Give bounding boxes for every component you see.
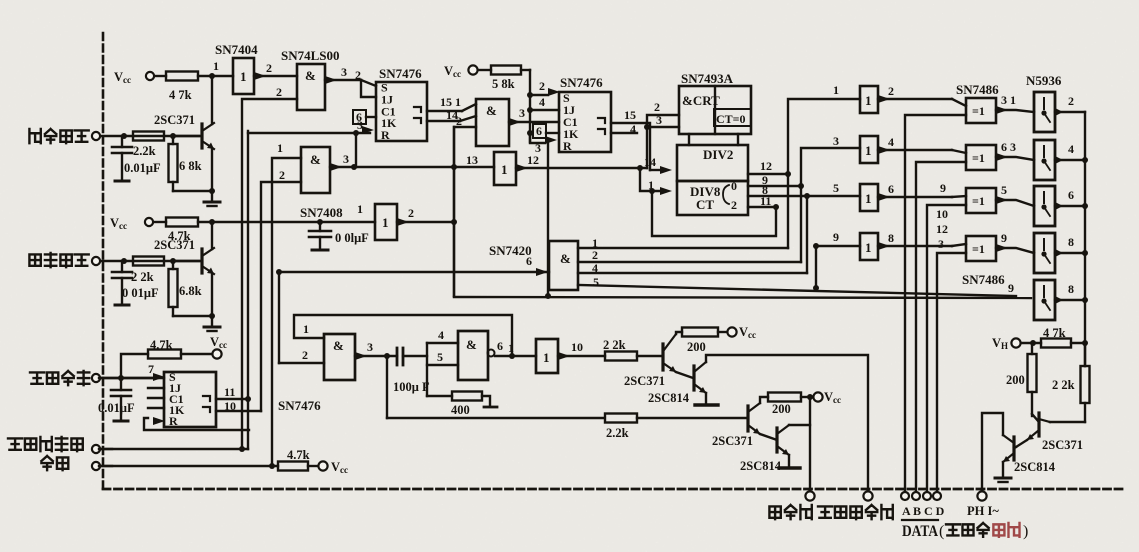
svg-text:1: 1 [357,202,363,216]
nand gate U12 with bubble [458,331,495,380]
svg-text:11: 11 [760,194,771,208]
wire Q10 emitter ground [779,455,800,468]
buffer 1-box row3 [860,184,878,211]
svg-text:2.2k: 2.2k [133,144,156,158]
Vcc terminal 5.8k [444,64,478,79]
terminal while-printing [92,445,112,453]
wire QA riser to row1 [788,99,860,248]
svg-text:SN7476: SN7476 [560,75,603,90]
buffer 13-12 box [494,152,516,185]
svg-text:&: & [466,337,477,352]
rail to second driver stage [387,417,604,419]
wire bundle row4 [578,272,807,274]
wire paper feed vertical [809,397,811,491]
svg-text:0 0lμF: 0 0lμF [335,231,369,245]
Vcc terminal reset row [318,460,348,475]
border dashed bottom [103,488,1122,491]
xor gate =1 row2 [966,145,996,170]
wire QD pin11 [748,194,779,210]
resistor 4.7k right [1021,326,1085,348]
SN7420 input pins [592,236,599,289]
svg-text:5 8k: 5 8k [492,77,515,91]
svg-text:4: 4 [592,261,598,275]
wire FF2 R down to reset bus [545,143,551,299]
wire collector Q1 [211,76,213,124]
counter DIV2 box [677,145,748,181]
wire FF1 Qbar pin14 to and gate [427,108,476,122]
svg-text:10: 10 [571,340,583,354]
wire nand2 in1 from reset line [272,141,301,465]
wire reset bus long to driver5 [454,297,1031,298]
wire QB pin9 [748,173,804,189]
wire driver2 output [1055,142,1085,160]
svg-text:=1: =1 [972,194,985,208]
label DATA with overline [902,520,1028,540]
svg-text:1: 1 [382,215,389,230]
wire xor2 output [996,140,1034,161]
svg-text:4 7k: 4 7k [1043,326,1066,340]
flip-flop U5 SN7476 second [559,75,611,153]
svg-text:3: 3 [343,152,349,166]
svg-text:3: 3 [357,118,363,132]
svg-text:1: 1 [501,162,508,177]
svg-text:9: 9 [1008,281,1014,295]
xor gate =1 row1 [966,98,996,123]
wire character row [121,258,199,264]
svg-text:SN7486: SN7486 [962,272,1005,287]
boxed pin 6 FF1 C1 [353,110,376,124]
svg-text:2SC371: 2SC371 [624,374,665,388]
monostable S box [536,339,558,373]
wire QD drop to feedback [652,191,776,236]
svg-text:4: 4 [539,95,545,109]
nand U2 SN74LS00 [281,48,340,110]
wire FF2 Q pin15 down [611,108,650,170]
driver N5936 unit2 [1034,140,1063,180]
svg-text:DIV2: DIV2 [703,147,733,162]
wire FF2 R stub pin3 [530,133,557,155]
resistor 6.8k ch1 [169,136,213,191]
wire QB riser to row2 [801,148,860,262]
svg-text:1: 1 [833,83,839,97]
svg-text:2: 2 [654,100,660,114]
svg-text:SN74LS00: SN74LS00 [281,48,340,63]
wire while-printing row [99,446,248,452]
svg-text:0.01μF: 0.01μF [124,161,161,175]
svg-text:R: R [381,128,390,142]
svg-text:6: 6 [526,254,532,268]
wire QA pin12 [748,159,791,177]
wire long row5 to driver5 [578,285,1016,296]
Vcc terminal print row [210,335,227,359]
svg-text:2: 2 [276,85,282,99]
wire QC pin8 [748,183,860,199]
svg-text:6: 6 [1068,188,1074,202]
svg-text:6: 6 [536,124,542,138]
wire cap node split [403,328,458,396]
boxed pin 16 FF2 1K [533,124,559,138]
svg-text:4.7k: 4.7k [150,338,173,352]
svg-text:400: 400 [451,403,470,417]
node collector junction [209,73,215,79]
counter CT=0 subbox [714,109,751,126]
bus line D [937,253,966,496]
vertical reset spine [247,131,249,449]
bus right edge vertical [1082,112,1088,366]
feedback loop top wire [294,315,515,359]
svg-text:4: 4 [438,328,444,342]
svg-text:5: 5 [593,275,599,289]
resistor 400 [427,392,497,418]
svg-text:100μ F: 100μ F [393,380,430,394]
wire bundle row3 [578,261,801,263]
transistor Q10 2SC814 [740,425,789,473]
svg-text:3: 3 [519,106,525,120]
xor gate =1 row3 [966,188,996,213]
wire buffer2 output [878,135,966,154]
wire FF3 Q pin11 [216,385,251,402]
wire driver5 output [1055,282,1085,300]
nand U9 SN7420 [489,241,578,290]
wire nand11 out down to rail [386,356,388,418]
wire nand2 in2 from FF3 Qbar [261,168,301,411]
wire QC drop to bundle [806,196,808,273]
long vertical mid spine [453,127,455,296]
svg-text:SN7408: SN7408 [300,205,343,220]
wire FF1 Q pin15 to and gate [427,95,476,111]
FF3 input stubs [148,362,165,425]
wire xor4 output [996,231,1034,253]
svg-text:&: & [486,103,497,118]
wire Q8 emitter ground [695,393,718,405]
svg-text:6 8k: 6 8k [179,159,202,173]
svg-text:6: 6 [497,339,503,353]
wire Q6 collector to PH terminal [982,413,1003,491]
counter CRT box [679,86,751,134]
svg-text:&: & [305,68,316,83]
svg-text:SN7486: SN7486 [956,82,999,97]
wire trigger row [121,133,199,139]
resistor 2.2k stage2 [605,414,748,441]
flip-flop U3 SN7476 first [376,66,427,142]
svg-text:0: 0 [731,179,737,193]
svg-text:&CRT: &CRT [682,93,720,108]
wire buffer tap to DIV8 clock [637,165,672,195]
input label zifu maichong (character pulse) [29,253,88,267]
terminal character pulse [92,257,124,265]
svg-text:2: 2 [731,198,737,212]
wire S box out 10 [558,340,605,360]
wire nand11 in2 [279,348,324,363]
label ribbon paper feed [818,505,893,519]
svg-text:SN7476: SN7476 [379,66,422,81]
svg-text:11: 11 [224,385,235,399]
svg-text:10: 10 [224,399,236,413]
capacitor 0.01uF mid [309,222,369,250]
svg-text:2SC371: 2SC371 [1042,438,1083,452]
wire print command row [99,377,164,379]
input label chufa maichong (trigger pulse) [29,129,88,143]
resistor 6.8k ch2 [169,261,213,316]
svg-text:1: 1 [277,141,283,155]
wire FF2 preset spine [527,70,533,142]
and gate U4 (SN7408 section) [476,99,509,146]
resistor 2.2k vertical [1052,343,1090,422]
svg-text:10: 10 [936,207,948,221]
input label dayin zhiling (print command) [30,371,89,385]
wire R-row to nand3 output row [351,133,357,170]
counter DIV8 box [677,181,748,215]
wire FF2 Qbar stub [611,132,637,134]
wire buffer out 12 [516,153,647,172]
wire collector Q2 [211,222,213,249]
svg-text:2: 2 [456,114,462,128]
wire nand11 out [355,340,397,360]
svg-text:R: R [169,414,178,428]
svg-text:2: 2 [279,168,285,182]
resistor 200 stage1 [676,328,727,355]
xor4 pin labels 10 12 [936,207,948,251]
svg-text:1: 1 [865,143,872,158]
svg-text:2SC814: 2SC814 [648,391,690,405]
svg-text:8: 8 [1068,235,1074,249]
svg-text:3: 3 [367,340,373,354]
wire LS00 out pin3 to FF1 S [325,65,376,86]
wire reset row [99,463,278,469]
svg-text:8: 8 [888,231,894,245]
wire FF1 R input row [248,118,374,136]
svg-text:=1: =1 [972,151,985,165]
svg-text:SN7404: SN7404 [215,42,258,57]
svg-text:&: & [333,338,344,353]
svg-text:13: 13 [466,153,478,167]
wire buffer row up to counter inputs [644,100,679,168]
transistor Q2 2SC371 [154,238,214,274]
nand2 output row to buffer [330,152,494,171]
wire Q10 collector to paper terminal [789,424,810,426]
svg-text:12: 12 [936,222,948,236]
ground Q1 [204,201,220,204]
svg-text:12: 12 [527,153,539,167]
svg-text:R: R [563,139,572,153]
wire buffer1 output [878,84,966,106]
svg-text:200: 200 [687,340,706,354]
svg-text:CT: CT [696,197,714,212]
flip-flop U10 SN7476 third [164,370,321,428]
resistor 4.7k top-left [155,72,233,103]
svg-text:1: 1 [508,341,514,355]
transistor Q1 2SC371 [154,113,214,149]
svg-text:9: 9 [940,181,946,195]
svg-text:2SC371: 2SC371 [154,238,195,252]
svg-text:2SC814: 2SC814 [1014,460,1056,474]
counter brace labels 0 2 [731,179,737,212]
wire buffer4 output [878,231,966,250]
svg-text:PH I~: PH I~ [967,504,999,518]
buffer 1-box row4 [860,233,878,260]
wire LS00 input2 row [242,85,297,449]
svg-text:4: 4 [1068,142,1074,156]
svg-text:9: 9 [833,230,839,244]
svg-text:15: 15 [624,108,636,122]
vertical from 7420 out to nand11 [278,272,280,363]
wire xor1 output [996,93,1034,114]
labels A B C D [902,504,945,518]
svg-text:2: 2 [1068,94,1074,108]
wire SN7420 output 6 [276,254,549,276]
svg-text:DATA: DATA [902,523,938,540]
wire tap to DIV2 clock [644,155,672,174]
svg-text:2SC814: 2SC814 [740,459,782,473]
terminal trigger pulse [92,132,124,140]
svg-text:1: 1 [865,240,872,255]
driver N5936 unit4 [1034,233,1063,273]
buffer 1-box row2 [860,136,878,163]
xor gate =1 row4 [966,236,996,261]
svg-text:3: 3 [341,65,347,79]
transistor Q5 2SC371 right [1016,413,1085,452]
svg-text:2: 2 [266,61,272,75]
terminal reset [92,462,112,470]
svg-text:8: 8 [1068,282,1074,296]
border dashed left [102,33,105,489]
nand gate U6 second [301,147,330,193]
wire and4 third input from below [454,114,476,296]
wire nand12 out to S box [495,339,536,356]
svg-text:0.01μF: 0.01μF [98,401,135,415]
terminal paper feed [805,491,814,500]
wire FF1 1J stub [361,80,376,97]
wire driver5 input [1008,281,1014,295]
input label dayin gongzuoshi (while printing) [8,437,83,451]
svg-text:2: 2 [539,79,545,93]
svg-text:3 1: 3 1 [1001,93,1016,107]
wire and4 out pin3 to FF2 C1 [509,106,559,126]
svg-text:N5936: N5936 [1026,73,1062,88]
wire Q8 collector row to ribbon terminal [706,355,868,491]
resistor 4.7k print row [118,338,212,381]
wire buffer3 output [878,182,966,201]
svg-text:SN7476: SN7476 [278,398,321,413]
resistor 2.2k ch1 [133,132,164,141]
bus line C [927,205,966,496]
bus line B [916,162,966,496]
resistor 4.7k ch2 [154,218,375,244]
Vcc terminal stage2 [813,390,841,405]
svg-text:3: 3 [656,113,662,127]
svg-text:2: 2 [408,206,414,220]
ground Q2 [204,326,220,329]
nand gate U11 bottom [324,334,355,380]
svg-text:5: 5 [1001,183,1007,197]
svg-text:5: 5 [833,181,839,195]
terminal print command [92,374,121,382]
svg-text:2: 2 [888,84,894,98]
svg-text:3: 3 [938,237,944,251]
wire Q6 emitter ground [995,462,1011,482]
svg-text:6.8k: 6.8k [179,284,202,298]
capacitor 0.01uF ch1 [112,136,161,181]
svg-text:1: 1 [543,350,550,365]
wire riser row4 to box4 input [813,243,860,288]
inverter U1 SN7404 [215,42,258,94]
svg-text:2 2k: 2 2k [1052,378,1075,392]
wire FF3 S from print row [121,377,153,379]
resistor 2.2k ch2 [133,257,164,266]
terminal PH [967,491,999,518]
driver N5936 unit1 [1034,92,1063,132]
svg-text:9: 9 [1001,231,1007,245]
svg-text:&: & [560,251,571,266]
and gate U7 SN7408 [300,202,397,240]
svg-text:=1: =1 [972,104,985,118]
svg-text:4: 4 [888,135,894,149]
svg-text:200: 200 [772,402,791,416]
capacitor 0.01uF print [98,378,135,421]
svg-text:A B C D: A B C D [902,504,945,518]
svg-text:4 7k: 4 7k [169,88,192,102]
svg-text:1: 1 [240,69,247,84]
wire SN7408 out pin2 [397,206,457,226]
svg-text:0 01μF: 0 01μF [122,286,159,300]
buffer 1-box row1 [860,86,878,113]
svg-text:2SC371: 2SC371 [154,113,195,127]
capacitor 100uF [393,348,430,394]
svg-text:12: 12 [760,159,772,173]
node QD feedback [649,188,655,194]
wire emitter Q1 to ground [209,149,215,202]
driver N5936 unit3 [1034,186,1063,226]
svg-text:2.2k: 2.2k [606,426,629,440]
capacitor 0.01uF ch2 [112,261,159,305]
svg-text:1: 1 [865,93,872,108]
svg-text:2 2k: 2 2k [603,338,626,352]
terminals A B C D [901,492,941,500]
svg-text:3: 3 [833,134,839,148]
svg-text:CT=0: CT=0 [716,112,746,126]
wire SN7404 out pin2 [254,61,297,80]
wire driver1 output [1055,94,1085,112]
wire xor3 output [996,183,1034,206]
svg-text:6 3: 6 3 [1001,140,1016,154]
Vcc terminal top-left [114,70,154,85]
transistor Q7 2SC371 [624,334,676,388]
svg-text:1: 1 [213,59,219,73]
counter output brace [723,185,729,204]
wire emitter Q2 to ground [209,274,215,327]
Vh terminal [992,336,1021,351]
svg-text:): ) [1023,523,1028,540]
svg-text:5: 5 [437,350,443,364]
resistor 5.8k [478,66,530,92]
wire driver4 output [1055,235,1085,253]
resistor 2.2k stage1 [603,338,663,361]
counter section links [689,134,738,145]
svg-text:15 1: 15 1 [440,95,461,109]
input label fuwei (reset) [41,456,68,470]
svg-text:4.7k: 4.7k [287,448,310,462]
svg-text:SN7493A: SN7493A [681,71,734,86]
svg-text:(: ( [939,523,944,540]
resistor 200 vertical [1006,343,1037,416]
resistor 200 stage2 [760,393,813,417]
transistor Q8 2SC814 [648,362,706,405]
Vcc terminal stage1 [727,325,756,340]
svg-text:6: 6 [888,182,894,196]
bus line A [905,115,966,496]
wire driver3 output [1055,188,1085,206]
wire FF3 bottom loop [144,418,249,430]
